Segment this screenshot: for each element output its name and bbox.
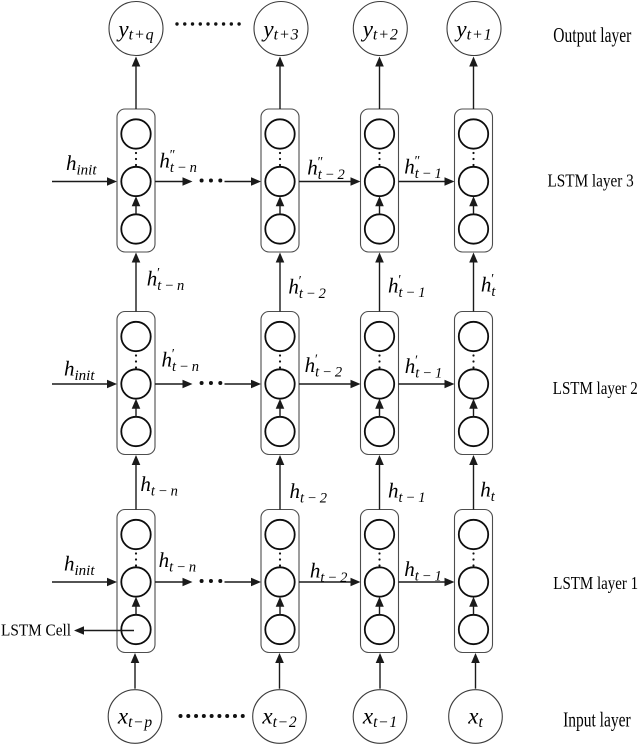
output node y_t+q (109, 2, 163, 56)
svg-text:LSTM layer 3: LSTM layer 3 (548, 171, 634, 191)
svg-text:Input layer: Input layer (563, 707, 631, 731)
svg-text:h: h (388, 478, 399, 502)
svg-text:h: h (480, 477, 491, 501)
arrow LSTM layer 1 to layer 2 col 2 (279, 464, 281, 510)
arrow col3 to col4 y=384.0 (399, 383, 446, 385)
arrow LSTM layer 1 to layer 2 col 4 (473, 464, 475, 510)
svg-text:LSTM Cell: LSTM Cell (1, 621, 71, 640)
svg-text:LSTM layer 1: LSTM layer 1 (553, 573, 638, 593)
arrow input to LSTM layer 1 col 3 (379, 662, 381, 689)
svg-text:LSTM layer 2: LSTM layer 2 (553, 378, 638, 398)
ellipsis dots between x_t-p and x_t-2 (179, 714, 183, 718)
arrow LSTM layer 2 to layer 3 col 3 (379, 262, 381, 312)
LSTM layer 3 cell column 4 (rounded box with 3 units) (455, 109, 493, 252)
LSTM layer 1 cell column 4 (rounded box with 3 units) (455, 510, 493, 653)
LSTM layer 2 cell column 3 (rounded box with 3 units) (361, 312, 399, 455)
ellipsis dots between y_t+q and y_t+3 (175, 22, 178, 25)
svg-text:Output layer: Output layer (553, 23, 631, 47)
arrow LSTM layer 1 to layer 2 col 1 (135, 464, 137, 510)
LSTM layer 2 cell column 1 (rounded box with 3 units) (117, 312, 155, 455)
arrow LSTM layer 2 to layer 3 col 2 (279, 262, 281, 312)
svg-text:h: h (140, 472, 151, 496)
arrow input to LSTM layer 1 col 2 (279, 662, 281, 689)
ellipsis dots y=582.0 (200, 579, 204, 583)
arrow col3 to col4 y=582.0 (399, 581, 446, 583)
input node x_t−1 (353, 690, 407, 744)
arrow col3 to col4 y=181.5 (399, 181, 446, 183)
arrow LSTM layer 3 col 1 to output (135, 66, 137, 110)
arrow LSTM layer 2 to layer 3 col 1 (135, 262, 137, 312)
LSTM layer 2 cell column 2 (rounded box with 3 units) (261, 312, 299, 455)
input node x_t (449, 690, 503, 744)
arrow col1 right segment y=181.5 (155, 181, 184, 183)
h_init arrow into col1 at y=384.0 (52, 383, 108, 385)
arrow LSTM layer 1 to layer 2 col 3 (379, 464, 381, 510)
arrow LSTM layer 3 col 2 to output (279, 66, 281, 110)
arrow LSTM layer 3 col 3 to output (379, 66, 381, 110)
arrow into col2 y=181.5 (225, 181, 253, 183)
output node y_t+3 (254, 2, 308, 56)
arrow LSTM layer 2 to layer 3 col 4 (473, 262, 475, 312)
arrow col2 to col3 y=582.0 (299, 581, 352, 583)
LSTM layer 1 cell column 1 (rounded box with 3 units) (117, 510, 155, 653)
arrow into col2 y=582.0 (225, 581, 253, 583)
arrow input to LSTM layer 1 col 1 (134, 662, 136, 689)
LSTM layer 1 cell column 3 (rounded box with 3 units) (361, 510, 399, 653)
arrow col2 to col3 y=384.0 (299, 383, 352, 385)
input node x_t−p (108, 690, 162, 744)
arrow col2 to col3 y=181.5 (299, 181, 352, 183)
h_init arrow into col1 at y=181.5 (52, 181, 108, 183)
LSTM layer 3 cell column 2 (rounded box with 3 units) (261, 109, 299, 252)
arrow input to LSTM layer 1 col 4 (475, 662, 477, 689)
arrow LSTM layer 3 col 4 to output (473, 66, 475, 110)
svg-text:h: h (159, 548, 170, 572)
LSTM layer 2 cell column 4 (rounded box with 3 units) (455, 312, 493, 455)
arrow col1 right segment y=582.0 (155, 581, 184, 583)
h_init arrow into col1 at y=582.0 (52, 581, 108, 583)
output node y_t+1 (447, 2, 501, 56)
LSTM layer 3 cell column 3 (rounded box with 3 units) (361, 109, 399, 252)
svg-text:h: h (290, 479, 301, 503)
svg-text:h: h (404, 557, 415, 581)
input node x_t−2 (253, 690, 307, 744)
LSTM layer 1 cell column 2 (rounded box with 3 units) (261, 510, 299, 653)
LSTM layer 3 cell column 1 (rounded box with 3 units) (117, 109, 155, 252)
arrow col1 right segment y=384.0 (155, 383, 184, 385)
ellipsis dots y=384.0 (200, 381, 204, 385)
svg-text:h: h (310, 558, 321, 582)
LSTM Cell pointer arrow (83, 630, 134, 632)
output node y_t+2 (353, 2, 407, 56)
arrow into col2 y=384.0 (225, 383, 253, 385)
ellipsis dots y=181.5 (200, 179, 204, 183)
